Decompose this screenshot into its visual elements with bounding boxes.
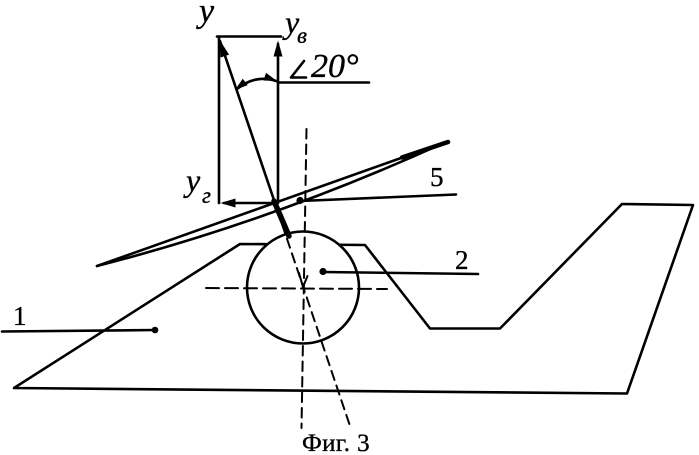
leader line 1 [2, 330, 156, 332]
vector U line [220, 41, 275, 203]
svg-text:у: у [183, 162, 201, 198]
svg-text:у: у [196, 0, 215, 30]
angle datum line [278, 81, 369, 84]
mast strut (bold) [274, 201, 289, 236]
dashed horizontal axis through wheel center [206, 288, 387, 289]
angle symbol [291, 61, 306, 78]
leader line 2 [323, 272, 478, 274]
svg-text:1: 1 [13, 301, 27, 331]
hull outline (part 1 body) [14, 204, 693, 394]
dashed tilted mast axis (20 deg) [282, 224, 350, 426]
arrowhead Uv [274, 41, 283, 57]
leader dot 5 [296, 197, 303, 204]
svg-text:г: г [202, 183, 211, 208]
construction rectangle left vertical [218, 37, 221, 203]
leader dot 1 [152, 327, 159, 334]
arrowhead Ug [221, 199, 236, 208]
vector Uv line [277, 44, 280, 203]
vector Ug line [224, 202, 275, 205]
V mark at wheel center [299, 273, 308, 287]
arc arrowhead left [235, 79, 248, 90]
svg-text:5: 5 [430, 162, 444, 192]
wheel circle (part 2) [247, 232, 359, 344]
arrowhead U [219, 39, 229, 58]
arc arrowhead right [263, 73, 277, 81]
dashed vertical axis [302, 129, 307, 428]
svg-text:20°: 20° [311, 48, 359, 85]
wing blade (part 5) upper edge [97, 142, 446, 266]
svg-text:2: 2 [455, 245, 469, 275]
svg-text:Фиг. 3: Фиг. 3 [302, 430, 370, 455]
construction rectangle top horizontal [217, 35, 281, 38]
leader dot 2 [319, 268, 326, 275]
svg-text:в: в [297, 23, 307, 48]
wing tip bold [402, 142, 448, 158]
wing blade lower edge [97, 142, 446, 266]
leader line 5 [300, 195, 456, 202]
angle arc [237, 79, 276, 89]
